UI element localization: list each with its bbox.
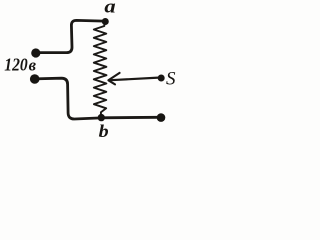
svg-text:в: в: [29, 55, 37, 74]
right terminal dot (slider S): [158, 75, 165, 82]
node b junction dot: [98, 114, 105, 121]
wire node b to bottom-right terminal: [101, 116, 158, 119]
upper-left terminal dot: [31, 48, 40, 57]
svg-text:120: 120: [4, 54, 28, 74]
wiper arrow shaft (slider S): [111, 78, 159, 81]
resistor R (rheostat winding): [94, 23, 107, 115]
svg-text:a: a: [104, 0, 116, 18]
svg-text:b: b: [99, 121, 109, 141]
wire upper-left terminal to node a: [36, 20, 105, 52]
bottom-right terminal dot: [157, 113, 166, 122]
wiper arrowhead: [108, 73, 119, 85]
svg-text:S: S: [166, 68, 176, 89]
lower-left terminal dot: [30, 74, 40, 84]
wire lower-left terminal to node b: [34, 78, 101, 119]
node a junction dot: [102, 18, 109, 25]
